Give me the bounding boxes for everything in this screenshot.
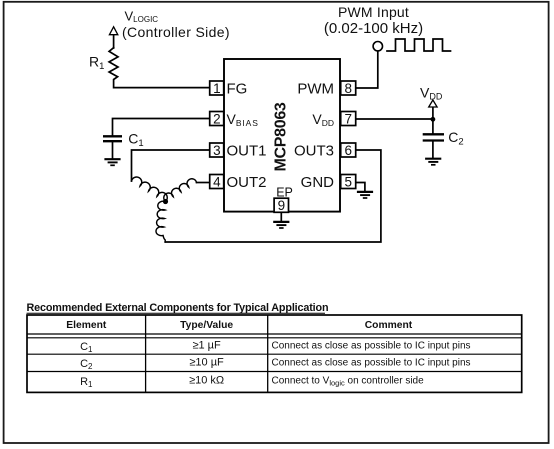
svg-text:C2: C2 — [448, 129, 464, 147]
svg-text:R1: R1 — [89, 54, 104, 72]
svg-text:MCP8063: MCP8063 — [273, 102, 290, 171]
svg-text:VLOGIC: VLOGIC — [125, 8, 159, 24]
svg-text:Connect as close as possible t: Connect as close as possible to IC input… — [272, 357, 471, 368]
svg-text:Element: Element — [66, 320, 107, 331]
svg-text:C1: C1 — [128, 131, 143, 149]
svg-text:Type/Value: Type/Value — [180, 320, 233, 331]
svg-text:VDD: VDD — [420, 84, 443, 101]
svg-text:≥10 µF: ≥10 µF — [189, 356, 224, 368]
svg-text:(0.02-100 kHz): (0.02-100 kHz) — [324, 20, 423, 37]
svg-text:Connect to Vlogic on controlle: Connect to Vlogic on controller side — [272, 375, 425, 387]
svg-text:9: 9 — [278, 198, 286, 213]
svg-text:(Controller Side): (Controller Side) — [122, 24, 230, 40]
svg-text:OUT1: OUT1 — [227, 142, 267, 159]
svg-text:3: 3 — [213, 143, 221, 158]
svg-text:4: 4 — [213, 174, 221, 189]
svg-text:PWM Input: PWM Input — [338, 4, 409, 20]
svg-text:R1: R1 — [80, 376, 93, 389]
svg-text:5: 5 — [344, 174, 352, 189]
svg-text:OUT2: OUT2 — [227, 174, 267, 191]
svg-text:Comment: Comment — [365, 320, 413, 331]
svg-text:1: 1 — [213, 81, 221, 96]
svg-text:C2: C2 — [80, 358, 93, 371]
svg-text:C1: C1 — [80, 341, 93, 354]
svg-text:≥1 µF: ≥1 µF — [192, 339, 221, 351]
svg-text:≥10 kΩ: ≥10 kΩ — [189, 374, 224, 386]
svg-text:EP: EP — [276, 186, 293, 200]
svg-text:FG: FG — [227, 80, 248, 97]
svg-text:Connect as close as possible t: Connect as close as possible to IC input… — [272, 340, 471, 351]
svg-text:6: 6 — [344, 143, 352, 158]
svg-text:2: 2 — [213, 111, 221, 126]
svg-text:Recommended External Component: Recommended External Components for Typi… — [27, 302, 329, 314]
svg-text:PWM: PWM — [297, 80, 334, 97]
svg-text:8: 8 — [344, 81, 352, 96]
svg-text:7: 7 — [344, 111, 352, 126]
svg-text:OUT3: OUT3 — [294, 142, 334, 159]
svg-text:GND: GND — [301, 174, 335, 191]
